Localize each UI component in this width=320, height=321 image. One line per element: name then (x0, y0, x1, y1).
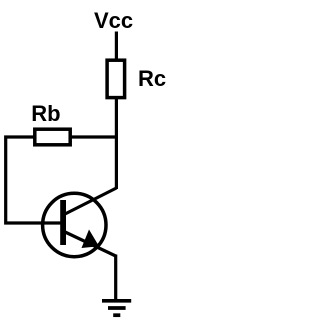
svg-text:Vcc: Vcc (94, 8, 133, 33)
resistor R2 Rb (35, 129, 70, 145)
svg-text:Rb: Rb (31, 101, 60, 126)
transistor Q1 collector lead (64, 188, 116, 215)
transistor Q1 emitter lead (64, 232, 116, 257)
wire emitter to ground (114, 255, 117, 301)
wire Vcc to Rc (115, 32, 118, 62)
wire Rc bottom to collector bend (115, 97, 118, 189)
transistor Q1 base bar (60, 200, 66, 245)
ground symbol (102, 301, 131, 315)
wire Rb left feedback down to base (6, 137, 62, 223)
resistor R1 Rc (107, 60, 125, 97)
transistor Q1 NPN (43, 188, 117, 257)
svg-text:Rc: Rc (138, 66, 166, 91)
transistor Q1 emitter arrow (82, 230, 100, 249)
transistor Q1 body circle (43, 193, 106, 256)
wire Rb right to collector node junction (70, 135, 119, 138)
